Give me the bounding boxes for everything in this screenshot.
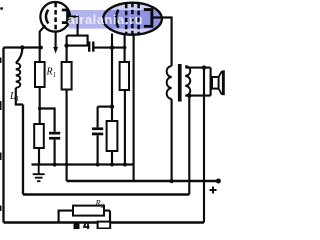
node R4 ground xyxy=(110,163,114,167)
wire V1 grid lead xyxy=(55,32,57,48)
transformer T1 secondary xyxy=(185,66,190,96)
grid arrow xyxy=(53,47,58,54)
capacitor C3 top plate xyxy=(92,127,103,130)
speaker horn xyxy=(219,71,222,94)
rail mid return xyxy=(23,193,189,195)
svg-text:L1: L1 xyxy=(9,91,19,103)
node cathode bias xyxy=(110,104,114,108)
wire C3 bottom lead xyxy=(97,135,99,164)
wire secondary bottom drop xyxy=(188,96,190,195)
artifact blob1 xyxy=(74,223,80,230)
wire V1 cathode lead xyxy=(40,25,46,62)
node primary B+ xyxy=(169,179,173,183)
ground symbol xyxy=(33,165,45,182)
svg-text:airalania.ru: airalania.ru xyxy=(68,12,143,27)
node speaker bottom tap xyxy=(187,93,191,97)
wire anode tee xyxy=(67,36,88,46)
wire V2 suppressor pin xyxy=(133,34,135,182)
artifact glyph4 xyxy=(84,223,90,229)
node bias tap xyxy=(38,107,42,111)
terminal plus xyxy=(216,179,221,184)
wire V1 anode lead xyxy=(68,17,78,36)
wire bypass tap xyxy=(98,106,112,108)
wire secondary bottom xyxy=(185,95,210,97)
wire V2 anode lead xyxy=(152,18,172,67)
resistor R2 xyxy=(73,206,104,216)
wire to C2 xyxy=(67,45,89,47)
node grid line on v1 xyxy=(110,45,114,49)
node grid line end xyxy=(123,46,127,50)
capacitor C1 top plate xyxy=(49,132,60,135)
wire left rail xyxy=(2,48,4,223)
inductor L1 xyxy=(16,63,20,88)
node R5 ground xyxy=(123,163,127,167)
ground bus xyxy=(32,163,135,165)
resistor R2a anode load xyxy=(62,62,72,90)
wire R2a bottom to B+ rail xyxy=(66,90,68,182)
tube V2 anode xyxy=(144,10,152,27)
resistor R1 xyxy=(35,62,45,87)
wire speaker drop xyxy=(203,68,205,223)
wire secondary top xyxy=(185,67,210,69)
wire C2 to grid xyxy=(95,47,125,49)
resistor R3 cathode bias xyxy=(34,124,44,148)
node speaker top tap xyxy=(202,65,206,69)
artifact edge marks xyxy=(0,58,2,212)
node cathode junction xyxy=(39,46,43,50)
svg-text:R1: R1 xyxy=(46,67,57,80)
rail B+ xyxy=(67,180,219,182)
wire R5 bottom xyxy=(124,90,126,165)
node anode junction xyxy=(64,43,68,47)
wire top-left horizontal xyxy=(4,46,42,48)
resistor R4 cathode xyxy=(107,121,118,151)
wire left inner rail xyxy=(22,105,24,195)
wire R2 loop left xyxy=(59,211,73,223)
tube V2 grid3 xyxy=(137,4,140,34)
tube V1 cathode xyxy=(46,10,48,24)
resistor R5 screen xyxy=(120,62,129,90)
capacitor C1 bottom plate xyxy=(49,137,60,140)
wire primary bottom xyxy=(171,99,173,181)
capacitor C3 bottom plate xyxy=(92,133,103,136)
speaker mouth xyxy=(222,70,225,95)
wire L1 top connector xyxy=(16,48,22,63)
wire V2 grid pin xyxy=(124,34,126,62)
wire L1 bottom xyxy=(16,88,23,105)
rail bottom xyxy=(4,221,205,224)
speaker bracket xyxy=(210,68,212,96)
node L1 top junction xyxy=(20,45,24,49)
tube V2 cathode xyxy=(116,10,118,28)
tube V1 envelope xyxy=(40,2,70,32)
node R2a bus crossing xyxy=(65,163,68,166)
label plus xyxy=(210,187,217,194)
wire C1 bottom lead xyxy=(54,140,56,165)
transformer core xyxy=(178,64,182,102)
tube V2 grid1 xyxy=(125,4,128,34)
tube V1 grid xyxy=(54,3,57,31)
watermark rect xyxy=(66,10,160,29)
capacitor C2 right plate xyxy=(92,42,94,52)
wire bias tap to C1 xyxy=(40,109,55,132)
tube V1 anode xyxy=(62,10,68,23)
node C1 ground xyxy=(53,162,57,166)
capacitor C2 left plate xyxy=(88,42,90,52)
wire R3 bottom xyxy=(38,148,40,165)
tube V2 grid2 xyxy=(131,3,134,35)
node C3 ground xyxy=(96,163,100,167)
transformer T1 primary xyxy=(167,66,172,99)
wire anode to R2a xyxy=(66,36,68,62)
speaker driver xyxy=(212,77,219,89)
wire C3 top lead xyxy=(97,107,99,128)
wire R1 bottom xyxy=(39,87,41,124)
wire V2 cathode pin xyxy=(111,34,113,122)
tube V2 envelope xyxy=(103,3,162,35)
artifact box xyxy=(98,222,111,229)
artifact topleft dot xyxy=(0,7,3,10)
wire R2 loop right xyxy=(104,211,110,223)
wire R4 bottom xyxy=(111,151,113,165)
